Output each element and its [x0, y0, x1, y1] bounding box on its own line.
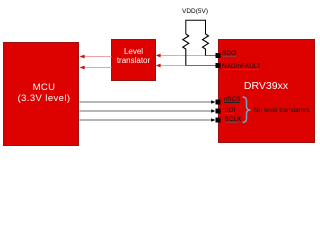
- MCU block: [3, 42, 79, 146]
- wire SDO: junction to pin (gray segment): [206, 55, 217, 57]
- arrowhead into MCU (upper): [80, 55, 85, 59]
- pin label NAD/nFAULT: [222, 63, 261, 70]
- wire NAD/nFAULT: DRV to translator (5V side, pink segment): [160, 65, 186, 67]
- wire SCLK: MCU to DRV: [80, 119, 213, 121]
- arrowhead into DRV (nSCS): [211, 100, 215, 104]
- arrowhead into translator (SDO): [156, 54, 161, 58]
- pin label SDI underline: [225, 113, 235, 114]
- level translator U1: [111, 39, 156, 81]
- arrowhead into DRV (SDI): [211, 109, 215, 113]
- arrowhead into DRV (SCLK): [211, 118, 215, 122]
- level translator label: [111, 48, 156, 66]
- resistor R2 (pull-up, right, connects to SDO line): [203, 34, 209, 56]
- pin SDO terminal square: [216, 53, 221, 58]
- pin label SCLK underline: [225, 122, 240, 123]
- pin label SDO: [222, 50, 236, 57]
- arrowhead into MCU (lower): [80, 66, 85, 70]
- pin label nSCS: [224, 96, 241, 103]
- pin label nSCS underline: [224, 102, 240, 103]
- pin SCLK terminal square: [216, 118, 221, 123]
- VDD(5V) net label: [182, 8, 208, 15]
- VDD rail wire: [186, 20, 206, 34]
- MCU label: [6, 82, 82, 104]
- wire nFAULT: translator to MCU (3.3V side, lower): [84, 67, 112, 69]
- arrowhead into translator (NAD/nFAULT): [156, 64, 161, 68]
- brace grouping SPI input pins: [243, 97, 251, 123]
- pin SDI terminal square: [216, 109, 221, 114]
- wire NAD/nFAULT: junction to pin (gray segment): [186, 65, 216, 67]
- pin NAD/nFAULT terminal square: [216, 63, 221, 68]
- pin label SDI: [225, 107, 236, 114]
- pin label SDO underline: [223, 56, 237, 57]
- note: No level translators: [254, 107, 310, 114]
- wire SDO: translator to MCU (3.3V side, upper): [84, 56, 112, 58]
- wire SDI: MCU to DRV: [80, 110, 213, 112]
- wire SDO: DRV to translator (5V side, pink segment): [160, 55, 206, 57]
- wire nSCS: MCU to DRV: [80, 101, 213, 103]
- resistor R1 (pull-up to SDO... left, connects to NAD/nFAULT line): [183, 34, 189, 66]
- pin nSCS terminal square: [216, 100, 221, 105]
- pin label SCLK: [225, 116, 242, 123]
- DRV39xx label: [218, 80, 314, 92]
- pin label NAD/nFAULT underline: [222, 69, 259, 70]
- DRV39xx block: [218, 39, 315, 143]
